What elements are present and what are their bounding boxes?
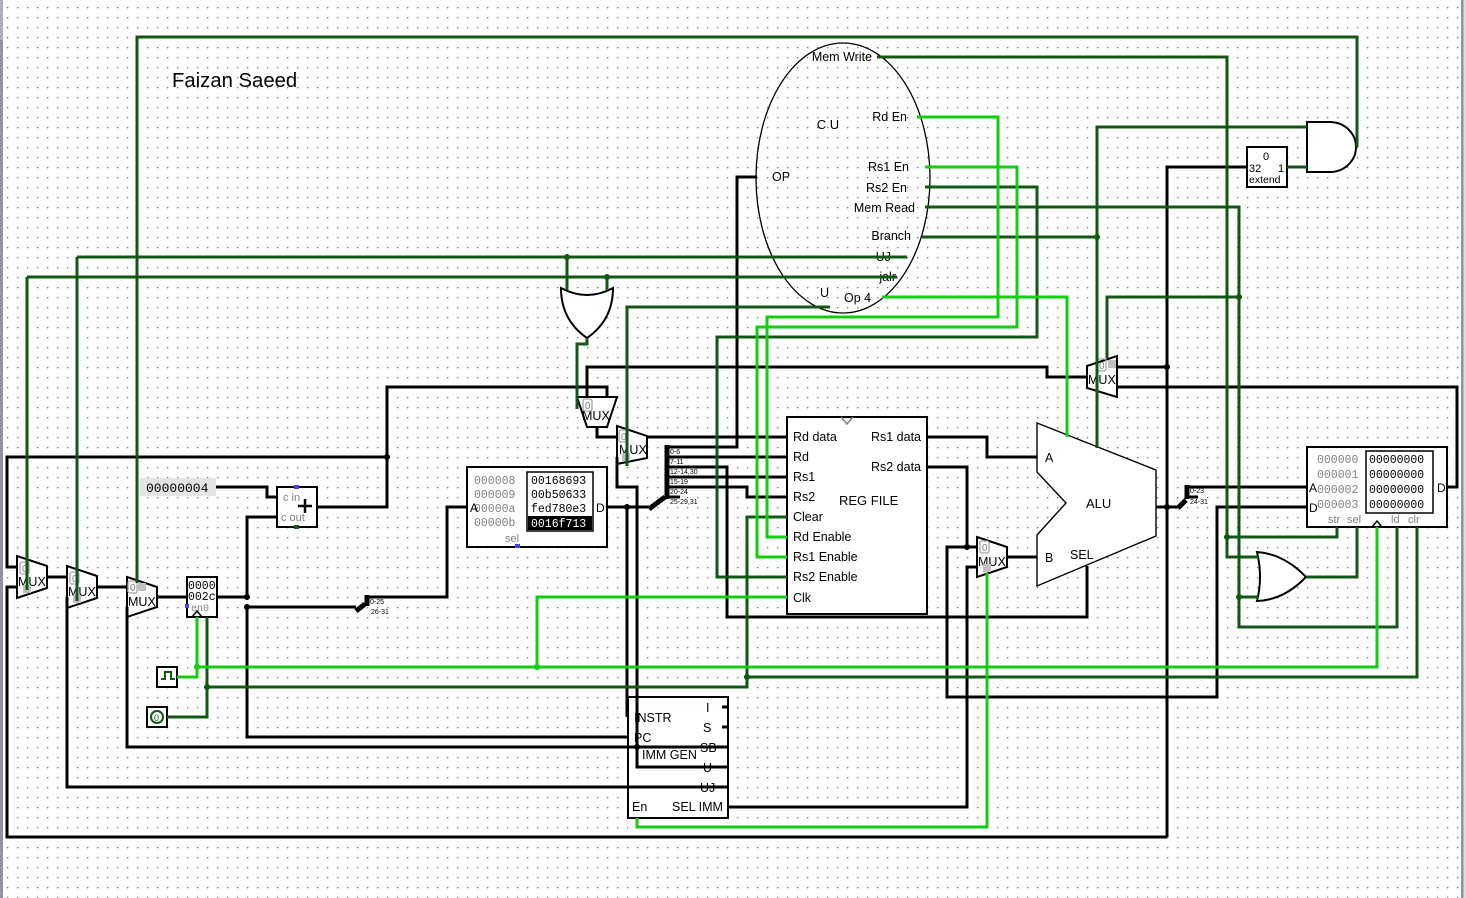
wire zero to PC enable bbox=[206, 617, 209, 687]
rom highlighted value bbox=[528, 516, 592, 530]
svg-text:sel: sel bbox=[505, 533, 519, 545]
wire MemWrite to RAM str bbox=[1227, 527, 1337, 537]
node Rs2-data junction bbox=[964, 544, 970, 550]
constant ZERO bbox=[147, 707, 167, 727]
svg-text:0: 0 bbox=[1263, 151, 1269, 163]
and-gate A1 bbox=[1307, 122, 1356, 172]
svg-text:Rs1 data: Rs1 data bbox=[871, 430, 921, 444]
wire ALU result to MUX7 input1 bbox=[1117, 366, 1167, 369]
register PC clock notch bbox=[192, 611, 202, 617]
svg-text:Rs2 data: Rs2 data bbox=[871, 460, 921, 474]
constant 00000004 bbox=[140, 478, 216, 496]
svg-text:C U: C U bbox=[817, 117, 839, 132]
svg-text:str: str bbox=[1328, 514, 1341, 526]
svg-text:Rs1 Enable: Rs1 Enable bbox=[793, 550, 858, 564]
node ALU-result junction bbox=[1164, 504, 1170, 510]
svg-text:00168693: 00168693 bbox=[531, 475, 586, 488]
wire immediate rail to MUX3 input2 bbox=[127, 607, 728, 747]
svg-text:0-6: 0-6 bbox=[670, 449, 680, 456]
svg-text:REG FILE: REG FILE bbox=[839, 493, 899, 508]
window right border bbox=[1461, 0, 1464, 898]
svg-text:000002: 000002 bbox=[1317, 484, 1359, 497]
node ALU-result to MUX7 junction bbox=[1164, 364, 1170, 370]
clock CLK1 bbox=[157, 667, 177, 687]
svg-text:fed780e3: fed780e3 bbox=[531, 503, 586, 516]
wire UJ to OR1 input1 bbox=[566, 257, 569, 290]
svg-text:Branch: Branch bbox=[871, 229, 911, 243]
wire clock output bbox=[177, 667, 197, 677]
wire SEL IMM to MUX6 input2 bbox=[728, 567, 977, 807]
reg-file clock chevron bbox=[841, 417, 853, 424]
ram clock notch bbox=[1372, 521, 1382, 527]
svg-text:S: S bbox=[703, 721, 711, 735]
node MemRead junction B bbox=[1236, 594, 1242, 600]
svg-text:Rd En: Rd En bbox=[872, 110, 907, 124]
svg-text:c out: c out bbox=[281, 512, 305, 524]
svg-text:002c: 002c bbox=[188, 591, 216, 604]
svg-text:12-14,30: 12-14,30 bbox=[670, 469, 698, 476]
svg-text:0: 0 bbox=[585, 401, 591, 412]
control unit U1 ellipse bbox=[756, 43, 930, 313]
splitter instruction fan bbox=[649, 497, 665, 509]
wire CU Op4 to ALU top pin bbox=[882, 297, 1067, 437]
svg-text:INSTR: INSTR bbox=[634, 711, 672, 725]
wire Rs2 data to MUX6 input1 bbox=[967, 546, 977, 549]
mux MUX7 bbox=[1087, 356, 1117, 397]
svg-text:00000000: 00000000 bbox=[1369, 484, 1424, 497]
node clock junction A bbox=[194, 664, 200, 670]
node MemWrite junction bbox=[1224, 534, 1230, 540]
node Branch junction bbox=[1094, 234, 1100, 240]
wire ALU output bbox=[1156, 506, 1167, 509]
svg-text:00000000: 00000000 bbox=[1369, 469, 1424, 482]
wire MUX6 output to ALU B bbox=[1007, 556, 1037, 559]
svg-text:en0: en0 bbox=[191, 604, 209, 615]
svg-text:MUX: MUX bbox=[18, 575, 46, 589]
wire funct3 bits12-14 to ALU SEL bbox=[667, 467, 1087, 617]
mux MUX2 bbox=[67, 566, 97, 608]
wire CU Mem Write bbox=[877, 57, 1227, 537]
wire Branch to AND input1 bbox=[1097, 127, 1307, 237]
wire AND output to MUX3 select bbox=[137, 37, 1357, 583]
svg-text:ALU: ALU bbox=[1086, 496, 1111, 511]
svg-text:B: B bbox=[1045, 551, 1053, 565]
wire immediate jog to U pin bbox=[637, 747, 728, 767]
extend box bbox=[1247, 147, 1287, 187]
register PC box bbox=[187, 577, 217, 617]
wire ALU result down to bottom rail bbox=[1166, 507, 1169, 837]
wire RAM data out to MUX7 input2 bbox=[1117, 387, 1457, 487]
node clock junction B bbox=[534, 664, 540, 670]
ram data frame bbox=[1366, 451, 1433, 513]
wire bits7-11 to REG FILE Rd bbox=[667, 456, 787, 459]
wire MemRead down bbox=[1238, 297, 1241, 597]
wire CU UJ line bbox=[77, 256, 907, 259]
wire zero up to REG FILE Clear bbox=[747, 517, 787, 677]
svg-text:Op 4: Op 4 bbox=[844, 291, 871, 305]
mux MUX3 bbox=[127, 577, 157, 617]
wire zero to RAM clr bbox=[747, 527, 1417, 677]
svg-text:26-31: 26-31 bbox=[371, 609, 389, 616]
wire Rs1 data to ALU A bbox=[927, 437, 1037, 457]
wire CU U to MUX5 select bbox=[627, 307, 830, 466]
reg-file U4 box bbox=[787, 417, 927, 614]
svg-text:0: 0 bbox=[1099, 361, 1105, 372]
svg-text:OP: OP bbox=[772, 170, 790, 184]
node PC+4 junction bbox=[384, 454, 390, 460]
svg-text:En: En bbox=[632, 800, 647, 814]
svg-text:000001: 000001 bbox=[1317, 469, 1359, 482]
node immediate junction bbox=[634, 744, 640, 750]
svg-text:00000000: 00000000 bbox=[1369, 454, 1424, 467]
wire ROM data out bbox=[607, 506, 627, 509]
node zero junction bbox=[204, 684, 210, 690]
wire MUX7 output to MUX4 input1 bbox=[587, 367, 1087, 397]
wire MUX2 output to MUX3 bbox=[97, 586, 127, 589]
svg-text:000008: 000008 bbox=[474, 475, 516, 488]
wire OR1 output to MUX4 select bbox=[577, 338, 587, 409]
wire ALU-result bottom rail to MUX1 input2 bbox=[7, 587, 1167, 837]
wire PC to address splitter bbox=[247, 606, 356, 609]
wire MemWrite to OR2 input1 bbox=[1227, 537, 1258, 557]
window left border bbox=[0, 0, 3, 898]
svg-text:Rs2 En: Rs2 En bbox=[866, 181, 907, 195]
wire CU Rd En to REG FILE Rd Enable bbox=[767, 117, 998, 537]
svg-text:24-31: 24-31 bbox=[1190, 499, 1208, 506]
wire jalr to OR1 input2 bbox=[606, 277, 609, 290]
svg-text:clr: clr bbox=[1408, 514, 1420, 526]
adder U2 box bbox=[277, 487, 317, 527]
svg-text:0: 0 bbox=[982, 543, 988, 554]
svg-text:Rs1: Rs1 bbox=[793, 470, 815, 484]
svg-text:Faizan Saeed: Faizan Saeed bbox=[172, 70, 297, 92]
wire MemRead to RAM ld bbox=[1239, 527, 1397, 627]
wire CU Rs1 En to REG FILE Rs1 Enable bbox=[757, 167, 1017, 557]
svg-text:7-11: 7-11 bbox=[670, 459, 684, 466]
or-gate OR2 bbox=[1257, 552, 1306, 601]
wire CU Branch bbox=[922, 236, 1097, 239]
adder carry-out pin bbox=[294, 525, 299, 529]
wire PC+4 adder-out to MUX4 input2 bbox=[317, 387, 607, 507]
svg-text:Rd: Rd bbox=[793, 450, 809, 464]
node jalr junction bbox=[604, 274, 610, 280]
wire extend output to AND input2 bbox=[1287, 166, 1307, 169]
svg-text:00000004: 00000004 bbox=[146, 481, 209, 496]
register PC enable pin bbox=[185, 604, 189, 608]
svg-text:0: 0 bbox=[154, 713, 159, 723]
wire PC value out bbox=[217, 596, 247, 599]
adder plus sign bbox=[298, 499, 312, 513]
svg-text:000000: 000000 bbox=[1317, 454, 1359, 467]
wire clock to REG FILE Clk bbox=[537, 597, 787, 667]
alu U5 body bbox=[1037, 423, 1156, 586]
wire clock rail bbox=[197, 527, 1377, 667]
svg-text:25-29,31: 25-29,31 bbox=[670, 499, 698, 506]
svg-text:0: 0 bbox=[130, 583, 136, 594]
svg-text:0016f713: 0016f713 bbox=[531, 518, 586, 531]
svg-text:D: D bbox=[1437, 481, 1446, 495]
svg-text:Rd data: Rd data bbox=[793, 430, 837, 444]
wire PC down to IMM GEN PC input bbox=[247, 607, 628, 737]
wire CU Mem Read bbox=[925, 207, 1239, 297]
svg-text:0-25: 0-25 bbox=[370, 599, 384, 606]
adder carry-in pin bbox=[294, 485, 299, 489]
svg-text:Rs2 Enable: Rs2 Enable bbox=[793, 570, 858, 584]
svg-text:ld: ld bbox=[1391, 514, 1400, 526]
wire bits25-31 stub bbox=[667, 496, 680, 499]
wire MUX4 output to MUX5 input1 bbox=[597, 427, 617, 437]
wire OR2 output to RAM sel bbox=[1306, 527, 1357, 577]
svg-text:00000a: 00000a bbox=[474, 503, 516, 516]
mux MUX5 bbox=[617, 426, 647, 464]
wire ALU result up to extend and MUX7 bbox=[1167, 167, 1247, 507]
mux MUX1 bbox=[17, 556, 47, 598]
svg-text:MUX: MUX bbox=[1088, 373, 1116, 387]
svg-text:SEL: SEL bbox=[1070, 548, 1094, 562]
rom sel pin bbox=[515, 544, 520, 548]
wire bits15-19 to REG FILE Rs1 bbox=[667, 476, 787, 479]
wire CU Rs2 En to REG FILE Rs2 Enable bbox=[717, 187, 1037, 577]
node clear junction bbox=[744, 674, 750, 680]
wire PC+4 feedback to MUX1 input1 bbox=[7, 457, 387, 567]
svg-text:A: A bbox=[470, 501, 478, 515]
splitter alu-result fan bbox=[1178, 500, 1186, 508]
wire CU jalr line bbox=[27, 276, 897, 279]
wire UJ to MUX2 select bbox=[76, 257, 79, 601]
wire MUX6 select to IMM GEN En bbox=[637, 573, 987, 827]
svg-text:Rd Enable: Rd Enable bbox=[793, 530, 851, 544]
wire zero rail to Clear bbox=[207, 677, 747, 687]
svg-text:D: D bbox=[596, 501, 605, 515]
wire Rs2 data store path to RAM D bbox=[947, 507, 1307, 697]
wire Branch to ALU top pin bbox=[1096, 237, 1099, 448]
mux MUX6 bbox=[977, 537, 1007, 577]
wire MUX5 output to REG FILE Rd data bbox=[647, 436, 787, 439]
svg-text:Clear: Clear bbox=[793, 510, 823, 524]
node instruction junction bbox=[624, 504, 630, 510]
svg-text:c in: c in bbox=[283, 492, 300, 504]
or-gate OR1 bbox=[561, 288, 613, 338]
node MemRead junction A bbox=[1236, 294, 1242, 300]
svg-text:MUX: MUX bbox=[978, 555, 1006, 569]
svg-text:00000000: 00000000 bbox=[1369, 499, 1424, 512]
svg-text:Rs1 En: Rs1 En bbox=[868, 160, 909, 174]
ram U6 box bbox=[1307, 447, 1447, 527]
wire ALU result to address splitter bbox=[1167, 506, 1178, 509]
wire RAM splitter stub bbox=[1187, 496, 1198, 499]
wire constant-0 output bbox=[167, 687, 207, 717]
svg-text:D: D bbox=[1309, 501, 1318, 515]
svg-text:000009: 000009 bbox=[474, 489, 516, 502]
svg-text:sel: sel bbox=[1347, 514, 1361, 526]
svg-text:00000b: 00000b bbox=[474, 517, 516, 530]
svg-text:Mem Write: Mem Write bbox=[812, 50, 872, 64]
wire RAM address bits to RAM A bbox=[1187, 486, 1307, 489]
rom U3 box bbox=[467, 467, 607, 547]
svg-text:A: A bbox=[1309, 481, 1317, 495]
svg-text:SEL IMM: SEL IMM bbox=[672, 800, 723, 814]
svg-text:IMM GEN: IMM GEN bbox=[642, 748, 697, 762]
wire bits20-24 to REG FILE Rs2 bbox=[667, 487, 787, 497]
wire instruction to splitter root bbox=[627, 506, 649, 509]
wire MemRead to MUX7 select bbox=[1107, 297, 1239, 358]
svg-text:15-19: 15-19 bbox=[670, 479, 688, 486]
wire constant 00000004 to adder input A bbox=[216, 487, 277, 497]
svg-text:U: U bbox=[820, 286, 829, 300]
wire PC to adder input B bbox=[247, 517, 277, 597]
wire clock to PC clk bbox=[196, 617, 199, 667]
svg-text:I: I bbox=[706, 701, 709, 715]
mux MUX4 bbox=[577, 397, 617, 427]
svg-text:MUX: MUX bbox=[68, 585, 96, 599]
wire UJ immediate to MUX2 input2 bbox=[67, 597, 728, 787]
svg-text:extend: extend bbox=[1249, 174, 1281, 186]
svg-text:20-24: 20-24 bbox=[670, 489, 688, 496]
wire splitter bits0-25 to ROM address A bbox=[367, 507, 467, 597]
node UJ junction bbox=[564, 254, 570, 260]
wire MUX3 output to PC register bbox=[157, 596, 187, 599]
svg-text:Mem Read: Mem Read bbox=[854, 201, 915, 215]
wire instruction down to IMM GEN INSTR bbox=[626, 507, 629, 717]
node PC junction A bbox=[244, 594, 250, 600]
svg-text:00b50633: 00b50633 bbox=[531, 489, 586, 502]
svg-text:A: A bbox=[1045, 451, 1054, 465]
wire MemRead to OR2 input2 bbox=[1239, 596, 1258, 599]
imm-gen U7 box bbox=[628, 697, 728, 818]
node PC junction B bbox=[244, 604, 250, 610]
svg-text:000003: 000003 bbox=[1317, 499, 1359, 512]
wire jalr to MUX1 select bbox=[26, 277, 29, 590]
svg-text:Rs2: Rs2 bbox=[793, 490, 815, 504]
splitter pc-address fan bbox=[356, 604, 365, 611]
wire immediate to MUX5 input2 bbox=[617, 457, 637, 747]
wire opcode bits0-6 to CU OP bbox=[667, 177, 757, 447]
wire MUX1 output to MUX2 bbox=[47, 576, 67, 579]
wire Rs2 data out bbox=[927, 467, 967, 547]
rom data frame bbox=[527, 472, 593, 531]
svg-text:MUX: MUX bbox=[128, 595, 156, 609]
svg-text:0-23: 0-23 bbox=[1190, 488, 1204, 495]
svg-text:Clk: Clk bbox=[793, 591, 812, 605]
